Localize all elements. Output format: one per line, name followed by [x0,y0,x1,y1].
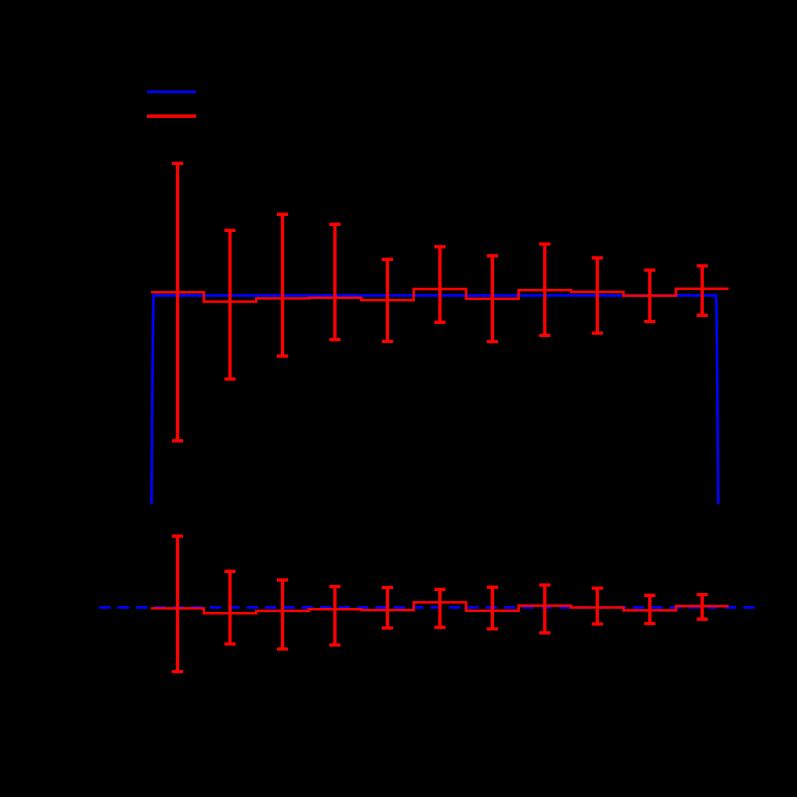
legend blue fit line sample [147,91,196,94]
top panel error bar 3 [277,214,288,356]
bottom panel error bar 8 [539,585,550,633]
red ratio step line (bottom panel) [151,602,729,613]
top panel error bar 5 [382,259,393,341]
top panel error bar 8 [539,244,550,335]
bottom panel error bar 1 [172,536,183,672]
top panel error bar 10 [644,270,655,321]
bottom panel error bar 9 [592,588,603,624]
top panel error bar 4 [329,224,340,339]
bottom panel error bar 4 [329,587,340,645]
blue fit curve (top panel) [151,295,718,504]
top panel error bar 1 [172,163,183,440]
red data step histogram (top panel) [151,289,729,302]
legend red data line sample [147,115,196,118]
bottom panel error bar 10 [644,595,655,623]
top panel error bar 11 [697,266,708,315]
bottom panel error bar 6 [434,589,445,627]
bottom panel error bar 7 [487,587,498,629]
top panel error bar 9 [592,258,603,333]
top panel error bar 6 [434,247,445,322]
bottom panel error bar 2 [224,571,235,644]
bottom panel error bar 5 [382,588,393,629]
ratio reference dashed blue line y=1 [99,606,756,609]
bottom panel error bar 3 [277,580,288,649]
top panel error bar 7 [487,256,498,342]
bottom panel error bar 11 [697,595,708,620]
top panel error bar 2 [224,230,235,379]
